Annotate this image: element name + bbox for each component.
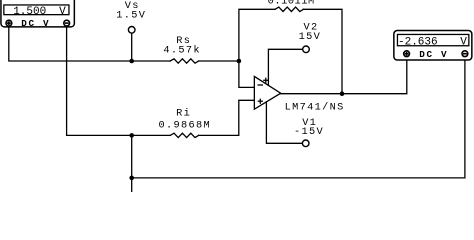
op-amp U1 LM741/NS triangle xyxy=(254,76,280,109)
wire: inverting node down to minus input xyxy=(239,61,254,87)
node dot: Ri left column junction xyxy=(129,133,134,138)
voltmeter M1 body xyxy=(1,0,74,29)
svg-text:-15V: -15V xyxy=(294,126,324,138)
terminal circle Vs xyxy=(128,27,135,34)
wire: V2 supply down to op-amp top edge xyxy=(268,49,302,85)
op-amp positive supply sign xyxy=(263,78,268,83)
svg-text:1.500: 1.500 xyxy=(13,6,46,18)
wire: inverting node up to feedback row xyxy=(239,9,275,61)
voltmeter M2 body xyxy=(394,31,472,61)
svg-text:-2.636: -2.636 xyxy=(398,36,438,48)
wire: left meter - terminal down and right to Ri xyxy=(67,26,171,135)
minus terminal xyxy=(64,20,70,26)
node dot: inverting input node xyxy=(237,59,242,64)
svg-text:LM741/NS: LM741/NS xyxy=(285,102,345,114)
plus terminal xyxy=(6,20,12,26)
svg-text:DC V: DC V xyxy=(419,49,448,60)
wire: left node column down to bottom edge xyxy=(131,135,133,192)
wire: Rs right to inverting node xyxy=(199,60,239,62)
op-amp minus input sign xyxy=(258,84,264,86)
op-amp plus input sign xyxy=(258,99,263,104)
terminal circle V1 xyxy=(302,140,309,147)
minus terminal xyxy=(462,51,468,57)
terminal circle V2 xyxy=(303,46,310,53)
svg-text:15V: 15V xyxy=(299,31,322,43)
wire: Ri right then up to non-inverting input xyxy=(199,100,255,135)
svg-text:4.57k: 4.57k xyxy=(163,45,201,57)
wire: op-amp output to right meter + xyxy=(281,57,407,94)
wire: Vs terminal drop xyxy=(131,33,133,61)
node dot: output feedback junction xyxy=(340,91,345,96)
svg-text:DC V: DC V xyxy=(21,18,50,29)
plus terminal xyxy=(404,51,410,57)
resistor Ri xyxy=(170,133,198,137)
resistor feedback 0.1011M xyxy=(275,7,303,11)
svg-text:0.1011M: 0.1011M xyxy=(268,0,315,8)
wire: left meter + terminal down to main input rail xyxy=(9,26,170,61)
wire: feedback right leg down to output node xyxy=(303,9,342,93)
svg-text:V: V xyxy=(460,36,467,48)
wire: right meter - down to ground rail and left xyxy=(132,57,465,178)
node dot: ground rail junction xyxy=(129,176,134,181)
svg-text:0.9868M: 0.9868M xyxy=(159,120,212,132)
node dot: Vs tap junction xyxy=(129,59,134,64)
wire: V1 supply up to op-amp bottom edge xyxy=(266,102,302,143)
svg-text:1.5V: 1.5V xyxy=(116,10,146,22)
svg-text:V: V xyxy=(59,6,66,18)
svg-text:Ri: Ri xyxy=(176,107,191,119)
resistor Rs xyxy=(170,59,198,63)
